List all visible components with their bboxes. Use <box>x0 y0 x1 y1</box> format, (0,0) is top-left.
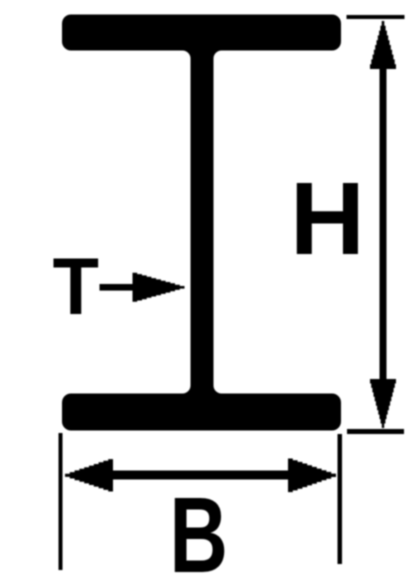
svg-text:T: T <box>53 241 99 332</box>
svg-text:H: H <box>290 160 365 276</box>
svg-text:B: B <box>169 476 228 577</box>
